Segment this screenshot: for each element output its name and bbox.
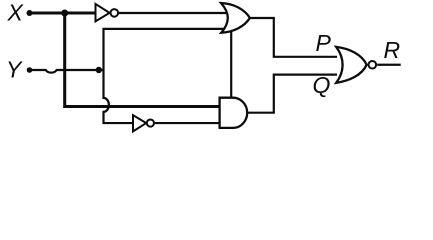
wire inverter U1 output to OR gate input: [119, 12, 227, 14]
wire feedback drop from Y line to AND gate top: [230, 29, 232, 99]
svg-text:P: P: [316, 30, 332, 56]
node X input terminal dot: [27, 10, 33, 16]
wire AND gate output to node Q into NOR gate: [247, 75, 337, 113]
svg-text:Y: Y: [6, 57, 23, 83]
wire NOR gate output R: [377, 64, 401, 66]
node Y branch junction: [96, 67, 102, 73]
inverter U2 (NOT gate bottom): [133, 115, 154, 131]
wire Y input with squiggle: [30, 70, 105, 73]
inverter U1 (NOT gate top): [96, 4, 119, 22]
wire OR gate output to node P into NOR gate: [250, 18, 338, 57]
AND gate G2: [220, 98, 248, 128]
node X branch junction: [61, 10, 68, 17]
wire X branch down and right to AND gate input: [65, 13, 220, 107]
NOR gate G3 output bubble: [369, 61, 377, 69]
svg-text:X: X: [7, 0, 25, 26]
wire Y branch down with hop over X wire to inverter U2: [104, 70, 134, 123]
wire X input to inverter: [30, 11, 96, 14]
svg-text:Q: Q: [313, 72, 331, 98]
OR gate G1: [221, 3, 250, 33]
wire inverter U2 output to AND gate lower input: [155, 122, 220, 124]
NOR gate G3 body: [336, 47, 366, 83]
svg-text:R: R: [384, 37, 401, 63]
wire Y branch up and right to OR gate lower input: [104, 29, 228, 70]
node Y input terminal dot: [27, 67, 33, 73]
